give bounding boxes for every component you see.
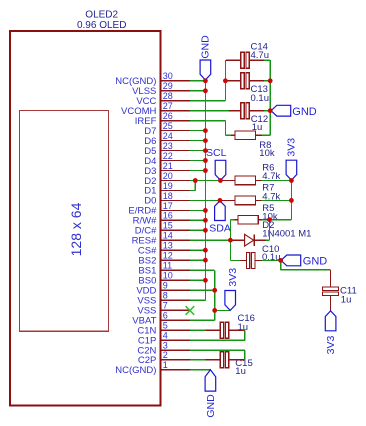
junction C13 right: [268, 78, 273, 83]
pin 27 VCOMH: [121, 101, 190, 117]
junction pin 9: [212, 288, 217, 293]
junction 3V3 flag / R6: [289, 178, 294, 183]
wire: C15 loop to pin 3: [244, 350, 246, 360]
wire: pin 5 C1N: [190, 329, 206, 331]
wire: 3V3 vertical: [290, 181, 292, 220]
capacitor C11: [323, 287, 339, 290]
wire: pin 30 to GND bus: [190, 80, 205, 82]
wire: pin 2 C2P: [190, 359, 206, 361]
svg-text:7: 7: [163, 301, 168, 311]
junction C12 / GND flag: [268, 108, 273, 113]
power flag 3V3 (above R6): [286, 160, 297, 180]
svg-text:1u: 1u: [235, 366, 246, 377]
wire: 3V3 horizontal to R5: [262, 219, 291, 221]
wire: C16 loop to pin 4: [244, 330, 246, 340]
wire: pin 12 to GND bus: [190, 259, 205, 261]
wire: pin 10 to GND bus: [190, 279, 205, 281]
wire: R6 left lead: [220, 180, 235, 182]
svg-text:8: 8: [163, 291, 168, 301]
power flag GND (right of C10): [281, 255, 301, 266]
power flag GND (bottom): [205, 370, 216, 391]
svg-text:1: 1: [163, 360, 168, 370]
svg-text:9: 9: [163, 281, 168, 291]
wire: C15 right lead: [229, 359, 245, 361]
junction 3V3 stub: [212, 308, 217, 313]
junction SDA flag: [218, 198, 223, 203]
wire: GND bus vertical: [204, 80, 206, 300]
wire: D2 cathode lead: [254, 239, 266, 241]
svg-text:6: 6: [163, 311, 168, 321]
pin 14 RES#: [132, 231, 190, 247]
pin 4 C1P: [138, 331, 190, 347]
wire: pin 22 to GND bus: [190, 160, 205, 162]
wire: pin 29 to GND bus: [190, 90, 205, 92]
wire: C11 top lead: [330, 270, 332, 287]
power flag 3V3 (below C11): [325, 311, 336, 331]
junction on GND bus at pin 22: [203, 158, 208, 163]
svg-text:22: 22: [163, 151, 173, 161]
wire: R5 right lead: [258, 219, 262, 221]
resistor R6: [235, 176, 256, 185]
wire: R8 left lead: [231, 134, 235, 136]
svg-text:1u: 1u: [238, 322, 249, 333]
svg-text:14: 14: [163, 231, 173, 241]
wire: pin 6 VBAT: [190, 319, 215, 321]
svg-text:29: 29: [163, 81, 173, 91]
wire: pin 8 to GND bus: [190, 299, 205, 301]
svg-text:20: 20: [163, 171, 173, 181]
junction on GND bus at pin 16: [203, 218, 208, 223]
pin 29 VLSS: [132, 81, 190, 97]
svg-text:10: 10: [163, 271, 173, 281]
pin 28 VCC: [136, 91, 190, 107]
resistor R8: [235, 131, 256, 140]
pin 6 VBAT: [132, 311, 190, 327]
pin 23 D5: [144, 141, 190, 157]
pin 5 C1N: [137, 321, 190, 337]
wire: R7 right lead: [256, 199, 262, 201]
wire: pin 1 NC(GND): [190, 369, 210, 371]
wire: pin 16 to GND bus: [190, 219, 205, 221]
wire: C10 left lead: [240, 259, 247, 261]
junction cathode / 3V3: [267, 217, 272, 222]
svg-text:25: 25: [163, 121, 173, 131]
wire: C10 right lead: [255, 259, 262, 261]
junction 3V3 / R7: [289, 198, 294, 203]
svg-text:11: 11: [163, 261, 172, 271]
junction on GND bus at pin 25: [203, 128, 208, 133]
junction on GND bus at pin 17: [203, 208, 208, 213]
svg-text:2: 2: [163, 350, 168, 360]
svg-text:0.96 OLED: 0.96 OLED: [77, 20, 126, 31]
wire: GND node down to C11: [280, 260, 282, 269]
capacitor C15: [220, 352, 223, 368]
svg-text:SDA: SDA: [209, 222, 231, 234]
svg-text:26: 26: [163, 111, 173, 121]
svg-text:13: 13: [163, 241, 173, 251]
wire: C16 right lead: [229, 329, 245, 331]
wire: C14 right lead: [249, 59, 264, 61]
wire: R8 right lead: [256, 134, 262, 136]
wire: pin 18 D0 (SDA net): [190, 199, 220, 201]
svg-text:28: 28: [163, 91, 173, 101]
pin 26 IREF: [135, 111, 190, 127]
junction on GND bus at pin 23: [203, 148, 208, 153]
wire: pin 28 VCC to capacitors: [190, 100, 225, 102]
svg-text:NC(GND): NC(GND): [115, 365, 156, 376]
pin 7 VSS: [137, 301, 189, 317]
wire: C15 left lead: [206, 359, 221, 361]
wire: pin 14 RES#: [190, 239, 230, 241]
pin 22 D4: [144, 151, 190, 167]
svg-text:4: 4: [163, 331, 168, 341]
wire: pin 26 IREF: [190, 120, 225, 122]
wire: R5 left lead: [235, 219, 239, 221]
svg-text:0.1u: 0.1u: [262, 252, 281, 263]
junction on GND bus at pin 30: [203, 78, 208, 83]
junction pin19/pin20: [193, 178, 198, 183]
junction SCL flag: [218, 178, 223, 183]
wire: R5 riser down to RES#: [229, 220, 231, 241]
power flag GND (top): [200, 60, 211, 80]
wire: VCC vertical riser: [224, 60, 226, 100]
junction on GND bus at pin 12: [203, 258, 208, 263]
junction C10 / GND flag: [278, 258, 283, 263]
svg-text:30: 30: [163, 71, 173, 81]
svg-text:18: 18: [163, 191, 173, 201]
pin 11 BS1: [138, 261, 190, 277]
power flag GND (right of C12): [271, 105, 291, 116]
junction VCC / C13: [223, 78, 228, 83]
pin 21 D3: [144, 161, 190, 177]
junction on GND bus at pin 15: [203, 228, 208, 233]
wire: R6 right lead: [256, 180, 262, 182]
wire: C13 right lead: [249, 80, 264, 82]
capacitor C13: [241, 73, 244, 89]
pin 17 E/RD#: [128, 201, 190, 217]
svg-text:15: 15: [163, 221, 173, 231]
wire: pin 27 VCOMH to C12: [190, 110, 229, 112]
svg-text:24: 24: [163, 131, 173, 141]
wire: pin 11 BS1: [190, 269, 215, 271]
pin 10 BS0: [138, 271, 190, 287]
resistor R7: [235, 196, 256, 205]
svg-text:12: 12: [163, 251, 173, 261]
wire: pin 20 D2 (SCL net): [190, 180, 220, 182]
svg-text:3V3: 3V3: [227, 268, 239, 287]
wire: 3V3 flag stub: [215, 309, 231, 311]
wire: C13 left lead: [226, 80, 241, 82]
wire: C10 riser: [229, 240, 231, 260]
power flag 3V3 (bottom): [225, 291, 236, 311]
svg-text:3V3: 3V3: [286, 138, 298, 157]
pin 19 D1: [144, 181, 190, 197]
wire: pin 23 to GND bus: [190, 150, 205, 152]
net flag SCL: [215, 160, 226, 180]
capacitor C14: [241, 52, 244, 68]
svg-text:16: 16: [163, 211, 173, 221]
capacitor C10: [246, 252, 249, 268]
pin 24 D6: [144, 131, 190, 147]
wire: pin 15 to GND bus: [190, 229, 205, 231]
pin 12 BS2: [138, 251, 190, 267]
svg-text:19: 19: [163, 181, 173, 191]
svg-text:5: 5: [163, 321, 168, 331]
pin 30 NC(GND): [115, 71, 190, 87]
wire: pin 21 to GND bus: [190, 170, 205, 172]
pin 18 D0: [144, 191, 190, 207]
diode D2 1N4001: [245, 234, 255, 246]
svg-text:4.7u: 4.7u: [251, 50, 270, 61]
svg-text:1u: 1u: [341, 294, 352, 305]
junction RES# node: [228, 238, 233, 243]
wire: C16 left lead: [206, 329, 221, 331]
wire: pin 19 D1 jog: [190, 189, 195, 191]
wire: C12 left lead: [229, 110, 241, 112]
net flag SDA: [215, 201, 226, 221]
svg-text:21: 21: [163, 161, 173, 171]
svg-text:3: 3: [163, 341, 168, 351]
wire: R7 left lead: [220, 199, 235, 201]
pin 15 D/C#: [135, 221, 190, 237]
pin 9 VDD: [136, 281, 190, 297]
svg-text:27: 27: [163, 101, 173, 111]
wire: C11 bottom lead: [330, 295, 332, 311]
wire: D2 cathode riser to 3V3: [268, 220, 270, 241]
wire: right GND vertical: [269, 60, 271, 135]
pin 20 D2: [144, 171, 190, 187]
wire: C14 left lead: [226, 59, 241, 61]
junction on GND bus at pin 21: [203, 168, 208, 173]
svg-text:GND: GND: [205, 394, 217, 418]
pin 25 D7: [144, 121, 190, 137]
pin 16 R/W#: [133, 211, 190, 227]
junction on GND bus at pin 13: [203, 248, 208, 253]
wire: D2 anode lead: [230, 239, 244, 241]
wire: pin 17 to GND bus: [190, 209, 205, 211]
svg-text:23: 23: [163, 141, 173, 151]
wire: pin 9 VDD: [190, 289, 215, 291]
wire: pin 24 to GND bus: [190, 140, 205, 142]
capacitor C12: [241, 103, 244, 119]
junction on GND bus at pin 10: [203, 278, 208, 283]
junction on GND bus at pin 24: [203, 138, 208, 143]
pin 3 C2N: [137, 341, 190, 357]
svg-text:GND: GND: [303, 256, 328, 268]
pin 2 C2P: [138, 350, 190, 366]
wire: 3V3 bottom vertical: [214, 270, 216, 320]
svg-text:0.1u: 0.1u: [251, 93, 270, 104]
wire: C12 right lead: [249, 110, 264, 112]
pin 13 CS#: [138, 241, 190, 257]
resistor R5: [238, 215, 258, 224]
svg-text:SCL: SCL: [206, 147, 227, 159]
display area rectangle: [20, 111, 109, 332]
svg-text:128 x 64: 128 x 64: [68, 202, 84, 256]
capacitor C16: [220, 322, 223, 338]
svg-text:3V3: 3V3: [325, 336, 337, 355]
wire: pin 13 to GND bus: [190, 249, 205, 251]
svg-text:GND: GND: [200, 35, 212, 59]
wire: pin 25 to GND bus: [190, 130, 205, 132]
wire: IREF riser down to R8: [224, 121, 226, 136]
svg-text:10k: 10k: [259, 148, 275, 159]
junction on GND bus at pin 29: [203, 88, 208, 93]
svg-text:GND: GND: [292, 106, 317, 118]
svg-text:17: 17: [163, 201, 173, 211]
OLED module U: component outline box: [10, 31, 161, 406]
pin 8 VSS: [137, 291, 190, 307]
no-connect X on pin 7: [186, 306, 195, 315]
pin 1 NC(GND): [115, 360, 190, 376]
